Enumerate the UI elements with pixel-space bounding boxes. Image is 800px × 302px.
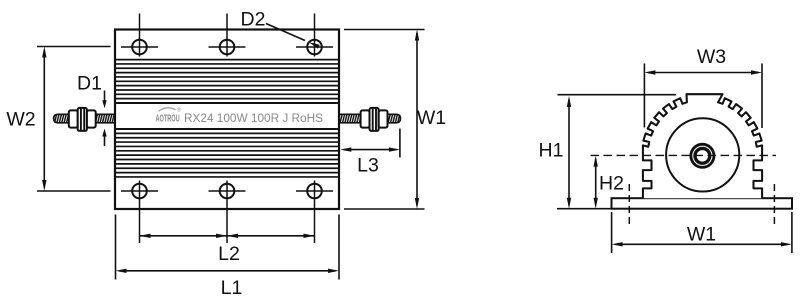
horizontal dashed centerline [591,154,777,156]
svg-text:RX24 100W 100R J RoHS: RX24 100W 100R J RoHS [184,111,323,125]
svg-text:W1: W1 [417,107,446,129]
mounting hole top-right with crosshair centerlines [296,14,333,57]
label band text: AOTROU logo [156,107,324,126]
dashed mounting hole centerline right [773,184,775,227]
right terminal nuts and washer [361,108,388,131]
svg-text:L3: L3 [357,155,379,177]
svg-text:H2: H2 [599,173,624,195]
dimension W2 [6,47,110,192]
svg-text:AOTROU: AOTROU [156,113,180,124]
svg-text:L1: L1 [221,277,243,299]
dimension W3 [644,46,762,128]
side view: finned housing outline [643,94,762,198]
side view: center hub (terminal end) [689,143,715,169]
mounting hole top-left with crosshair centerlines [121,14,158,57]
svg-text:L2: L2 [218,243,240,265]
mounting hole top-middle with crosshair centerlines [209,14,246,57]
dimension H1 [539,95,676,209]
side view: cylinder circle [666,118,739,191]
mounting hole bottom-middle with crosshair centerlines [209,181,246,244]
dimension L1 [116,215,340,300]
dashed mounting hole centerline left [628,184,630,227]
left terminal nuts and washer [69,108,96,131]
dimension L3 [340,129,400,177]
dimension D2 label and leader [241,9,320,49]
dimension W1 (front view right) [344,30,446,210]
side view: mounting base plate [612,198,793,209]
resistor body outline (front view) [115,30,339,210]
heatsink fins upper [116,59,339,61]
mounting hole bottom-left with crosshair centerlines [121,181,158,244]
svg-text:W3: W3 [697,46,726,68]
mounting hole bottom-right with crosshair centerlines [296,181,333,244]
right terminal threaded rod [339,114,401,123]
svg-text:W2: W2 [6,109,35,131]
left terminal threaded rod [54,114,116,123]
dimension D1 [77,73,107,147]
svg-text:H1: H1 [539,140,564,162]
svg-text:D2: D2 [241,9,266,31]
svg-text:W1: W1 [687,223,716,245]
dimension W1 (side view bottom) [612,212,792,253]
heatsink fins lower [116,128,339,130]
dimension H2 [594,156,624,209]
dimension L2 (two equal segments) [140,234,315,265]
svg-text:D1: D1 [77,73,102,95]
